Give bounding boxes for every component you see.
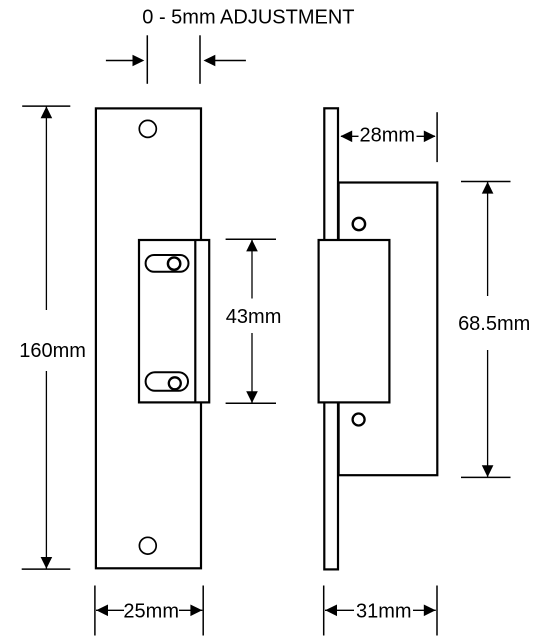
adjustment extension line left (146, 35, 148, 84)
43mm top tick (226, 238, 276, 240)
adjustment right arrow (204, 55, 246, 67)
label 68.5mm (458, 313, 530, 335)
bottom slot screw (169, 377, 181, 389)
top slot (146, 255, 189, 272)
svg-text:0 - 5mm ADJUSTMENT: 0 - 5mm ADJUSTMENT (142, 6, 354, 28)
68.5mm dimension line (454, 182, 536, 478)
top slot screw (168, 257, 180, 269)
68.5mm bottom tick (461, 476, 511, 478)
28mm extension line right (436, 112, 438, 162)
faceplate front view (96, 108, 201, 568)
keeper body (139, 240, 209, 402)
25mm extension line right (202, 586, 204, 636)
title text 0 - 5mm ADJUSTMENT (142, 6, 354, 28)
31mm extension line left (323, 586, 325, 636)
25mm dimension line (96, 600, 202, 621)
side bottom screw hole (353, 414, 365, 426)
svg-text:43mm: 43mm (226, 306, 282, 328)
31mm dimension line (325, 600, 436, 621)
68.5mm top tick (461, 181, 511, 183)
svg-text:160mm: 160mm (19, 340, 86, 362)
label 43mm (226, 306, 282, 328)
side top screw hole (353, 218, 365, 230)
svg-text:31mm: 31mm (356, 600, 412, 622)
31mm extension line right (436, 586, 438, 636)
43mm bottom tick (226, 402, 276, 404)
solenoid housing (319, 240, 390, 402)
label 31mm (356, 600, 412, 622)
43mm dimension line (223, 239, 285, 403)
label 28mm (360, 124, 416, 146)
28mm dimension line (340, 126, 435, 147)
top screw hole (139, 120, 156, 137)
160mm dimension line (17, 106, 89, 569)
strike body side view (339, 183, 438, 476)
keeper lip line (194, 240, 196, 402)
svg-text:25mm: 25mm (123, 600, 179, 622)
faceplate side view strip (324, 108, 338, 569)
adjustment left arrow (106, 55, 144, 67)
label 25mm (123, 600, 179, 622)
label 160mm (19, 340, 86, 362)
25mm extension line left (94, 586, 96, 636)
160mm bottom tick (22, 568, 71, 570)
adjustment extension line right (199, 35, 201, 84)
bottom slot (146, 372, 188, 391)
svg-text:68.5mm: 68.5mm (458, 313, 530, 335)
svg-text:28mm: 28mm (360, 124, 416, 146)
bottom screw hole (139, 537, 156, 554)
160mm top tick (22, 105, 70, 107)
